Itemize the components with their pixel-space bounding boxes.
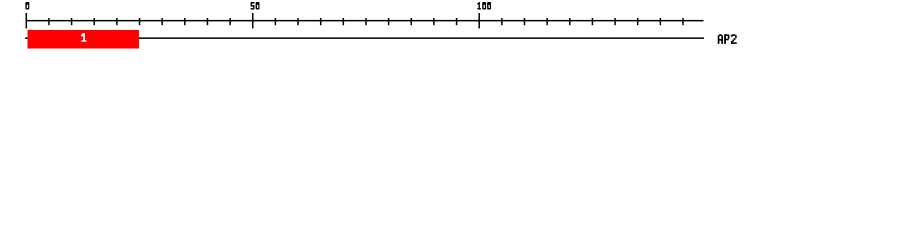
ruler ticks every 5 aa bbox=[26, 13, 684, 28]
protein domain diagram (SMART-style) bbox=[0, 0, 900, 58]
ruler label 0 bbox=[25, 2, 29, 10]
protein sequence line bbox=[25, 37, 704, 39]
ruler label 100 bbox=[477, 2, 481, 10]
digit 2 bbox=[731, 34, 737, 44]
ruler scale line bbox=[26, 20, 704, 22]
letter A bbox=[718, 34, 723, 44]
ruler label 50 bbox=[251, 2, 255, 10]
letter P bbox=[724, 34, 729, 44]
domain label 1 (white) bbox=[81, 33, 87, 42]
domain box 1 (red) bbox=[28, 30, 140, 49]
